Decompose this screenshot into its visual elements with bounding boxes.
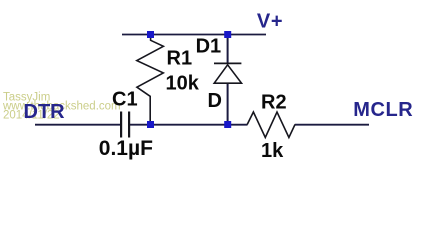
svg-text:C1: C1 [112,89,138,111]
svg-text:MCLR: MCLR [353,99,413,121]
svg-text:V+: V+ [257,11,283,33]
svg-text:1k: 1k [261,140,284,162]
junction bottom D1/R2 [224,121,231,128]
diode D1 triangle [214,65,241,83]
wire: bottom DTR lead from left to C1 left plate [35,124,120,126]
wire: diode vertical branch [227,35,229,65]
svg-text:DTR: DTR [24,101,66,123]
svg-text:R2: R2 [261,92,287,114]
wire: bottom from R2 to MCLR [295,124,369,126]
junction top D1 [224,31,231,38]
diode D1 cathode bar [214,62,241,64]
resistor R1 zigzag [137,38,164,123]
junction bottom C1/R1 [147,121,154,128]
svg-text:10k: 10k [166,73,200,95]
svg-text:R1: R1 [167,48,193,70]
resistor R2 zigzag [247,112,295,138]
wire: bottom between C1 right plate and R2 [130,124,248,126]
junction top R1 [147,31,154,38]
svg-text:D1: D1 [196,36,222,58]
svg-text:0.1µF: 0.1µF [99,137,153,160]
wire: top rail from above C1 to V+ [122,34,266,36]
capacitor C1 plates [120,112,122,138]
svg-text:D: D [208,90,222,112]
